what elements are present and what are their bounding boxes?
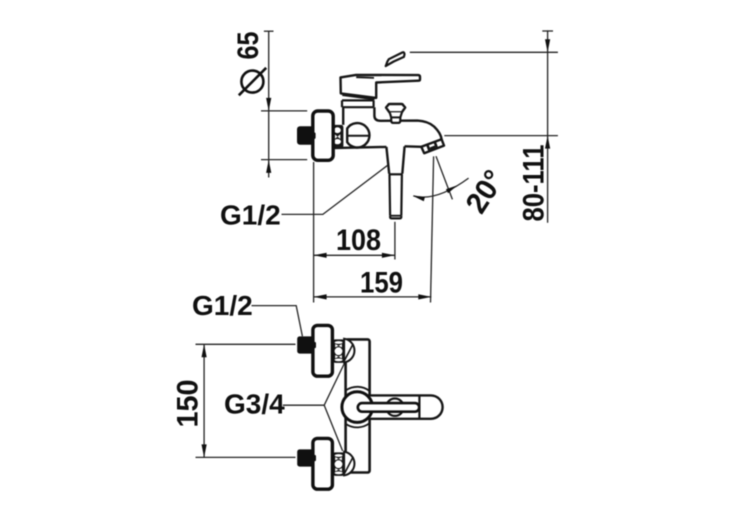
svg-text:80-111: 80-111 bbox=[518, 145, 551, 222]
bottom inlet flange bbox=[313, 438, 333, 489]
body plate (bottom view) bbox=[346, 339, 370, 472]
svg-text:G1/2: G1/2 bbox=[220, 200, 281, 231]
handle pivot bold circle bbox=[342, 392, 373, 423]
shower outlet tube bbox=[386, 146, 404, 218]
top inlet hex nut bbox=[297, 336, 316, 353]
body and spout outline bbox=[333, 107, 442, 148]
dimension 80-111 bbox=[410, 30, 558, 222]
lever handle bbox=[341, 75, 421, 100]
bottom inlet dome bbox=[344, 452, 354, 476]
wall flange (top view) bbox=[313, 111, 333, 160]
lever (bottom view, pill) bbox=[352, 395, 443, 418]
lever slot bbox=[358, 403, 419, 412]
screw circle on lever bbox=[386, 399, 403, 416]
top inlet flange bbox=[313, 325, 333, 376]
dimension 150 bbox=[172, 344, 296, 457]
handle raised-position outline (parallelogram) bbox=[386, 52, 405, 66]
label G3/4 bbox=[224, 362, 345, 451]
svg-text:G1/2: G1/2 bbox=[192, 290, 253, 321]
handle pivot thin circle bbox=[346, 387, 369, 428]
svg-text:G3/4: G3/4 bbox=[224, 389, 285, 420]
diameter symbol bbox=[239, 68, 266, 96]
diverter knob bbox=[386, 104, 405, 123]
svg-text:65: 65 bbox=[232, 32, 265, 60]
dimension Ø65 line bbox=[261, 31, 307, 177]
bottom inlet union rings bbox=[333, 452, 345, 476]
dimension Ø65 label text bbox=[232, 32, 265, 60]
svg-text:159: 159 bbox=[360, 267, 403, 300]
ball joint circle in body bbox=[347, 123, 369, 147]
20 degree swivel indicator bbox=[413, 156, 512, 219]
dimension 159 bbox=[314, 156, 434, 302]
spout outlet aerator (tilted) bbox=[421, 139, 444, 153]
svg-text:108: 108 bbox=[336, 224, 381, 257]
label G1/2 (top view) bbox=[220, 165, 388, 230]
svg-text:150: 150 bbox=[172, 380, 205, 428]
top inlet dome bbox=[344, 339, 354, 363]
dimension 108 bbox=[314, 162, 395, 303]
label G1/2 (bottom view) bbox=[192, 290, 302, 336]
hex union nut (top view) bbox=[297, 126, 316, 145]
bottom inlet hex nut bbox=[297, 449, 316, 466]
top inlet union rings bbox=[333, 339, 345, 363]
union rings (top view) bbox=[332, 125, 344, 148]
cartridge ring under handle bbox=[342, 100, 374, 107]
